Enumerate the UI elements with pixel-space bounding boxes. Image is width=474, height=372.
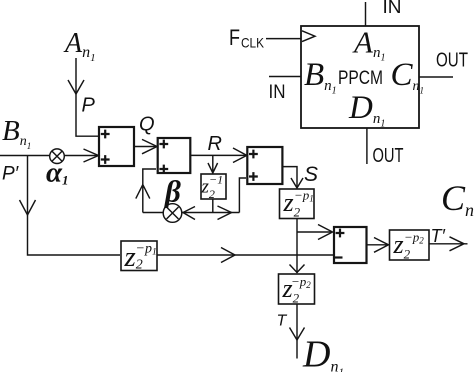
svg-text:OUT: OUT	[373, 145, 404, 167]
svg-text:Bn1: Bn1	[304, 57, 337, 97]
arrowhead into beta multiplier	[183, 207, 195, 220]
delay z2^-p2 (output)	[390, 230, 430, 260]
arrowhead up on beta output	[136, 185, 150, 199]
svg-text:R: R	[208, 133, 222, 155]
arrowhead on rail toward adder U3	[218, 206, 232, 220]
delay z2^-1	[201, 174, 226, 199]
arrowhead final output	[450, 237, 465, 251]
arrowhead into adder U2	[142, 139, 157, 153]
wire U3 output to S	[282, 167, 297, 188]
svg-text:Dn1: Dn1	[348, 90, 385, 130]
wire z2^-1 output down	[212, 199, 214, 213]
svg-text:F: F	[229, 25, 240, 50]
svg-text:Cn1: Cn1	[441, 178, 474, 223]
arrowhead into adder U3	[233, 148, 247, 163]
PPCM block U5	[301, 26, 419, 128]
arrowhead into z2^-1	[208, 163, 218, 173]
arrowhead into subtractor plus	[318, 225, 333, 240]
svg-text:−p1: −p1	[136, 242, 157, 258]
wire Q	[134, 146, 156, 148]
subtractor U4	[334, 227, 367, 263]
svg-text:Dn1: Dn1	[302, 334, 344, 372]
svg-text:An1: An1	[63, 28, 96, 64]
svg-text:OUT: OUT	[436, 50, 468, 72]
wire final output	[429, 243, 468, 245]
delay z2^-p1 (B path)	[121, 241, 157, 271]
svg-text:IN: IN	[269, 82, 286, 103]
wire S down to z2^-p2	[296, 219, 298, 274]
adder U1	[99, 127, 134, 166]
multiplier beta	[163, 204, 182, 223]
svg-text:β: β	[164, 174, 181, 209]
arrowhead into z2^-p2 bottom delay	[290, 265, 305, 273]
arrowhead on A wire	[68, 80, 84, 94]
svg-text:IN: IN	[383, 0, 402, 17]
svg-text:−p1: −p1	[294, 188, 314, 204]
wire OUT right	[419, 76, 453, 78]
svg-text:α1: α1	[46, 157, 69, 189]
svg-text:An1: An1	[352, 25, 385, 64]
wire down to D	[296, 304, 298, 359]
arrowhead to D	[290, 328, 305, 341]
svg-text:−1: −1	[209, 173, 223, 187]
arrowhead into delay S	[291, 178, 303, 188]
wire IN left	[269, 76, 301, 78]
wire branch down to z2^-1	[212, 155, 214, 172]
svg-text:−p2: −p2	[291, 274, 311, 290]
wire U4 output	[367, 244, 389, 246]
clock triangle	[302, 31, 315, 42]
arrowhead on rail	[221, 248, 235, 263]
wire F_CLK	[266, 38, 301, 40]
arrowhead into z2^-p2 output delay	[374, 238, 389, 253]
svg-text:T′: T′	[431, 226, 446, 246]
adder U2	[158, 138, 191, 173]
arrowhead on B branch	[20, 200, 36, 215]
multiplier alpha1	[50, 149, 65, 164]
wire B main horizontal	[0, 155, 99, 157]
svg-text:P′: P′	[2, 164, 20, 185]
svg-text:−p2: −p2	[404, 230, 424, 246]
wire B branch down to delay	[28, 156, 121, 256]
wire R	[190, 154, 246, 156]
adder U3	[247, 147, 282, 184]
wire feedback rail	[143, 178, 246, 213]
svg-text:T: T	[277, 313, 288, 330]
wire branch to subtractor plus	[297, 231, 332, 233]
svg-text:PPCM: PPCM	[338, 68, 383, 89]
delay z2^-p1 (S path)	[280, 189, 315, 219]
wire IN top	[365, 2, 367, 26]
wire OUT bottom	[366, 128, 368, 164]
wire A vertical into adder	[76, 58, 99, 136]
svg-text:CLK: CLK	[241, 35, 265, 51]
svg-text:S: S	[304, 163, 318, 186]
svg-text:P: P	[82, 95, 96, 117]
svg-text:Q: Q	[139, 114, 155, 136]
arrowhead into adder A1	[84, 149, 99, 162]
svg-text:Bn1: Bn1	[2, 115, 31, 151]
delay z2^-p2 (D path)	[279, 274, 315, 304]
wire beta output up into adder U2	[143, 169, 156, 213]
wire rail to subtractor minus	[157, 254, 334, 256]
